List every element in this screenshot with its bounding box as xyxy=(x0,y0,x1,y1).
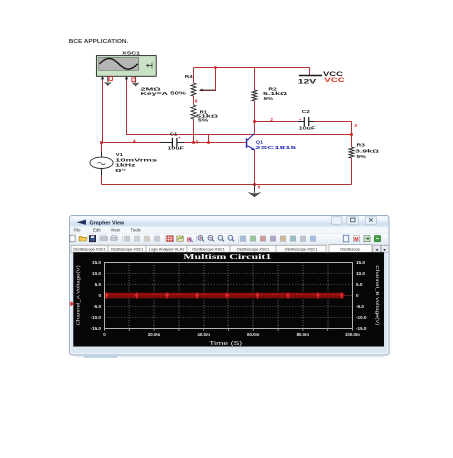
waveform trace xyxy=(105,293,344,299)
svg-text:3: 3 xyxy=(354,123,357,129)
svg-text:►: ► xyxy=(383,247,387,252)
power VCC xyxy=(298,71,346,86)
svg-text:Channel_A Voltage(V): Channel_A Voltage(V) xyxy=(76,265,82,326)
svg-text:0°: 0° xyxy=(115,168,126,173)
plot frame xyxy=(105,263,353,329)
junction node 4/V1 xyxy=(100,141,103,144)
svg-text:Oscilloscope-XSC1: Oscilloscope-XSC1 xyxy=(237,247,270,251)
window title bar xyxy=(71,217,389,228)
wire R3 bottom xyxy=(351,158,353,185)
wire C2 to node 3 xyxy=(309,121,352,123)
x axis ticks xyxy=(105,329,353,331)
svg-text:6: 6 xyxy=(195,98,198,104)
svg-text:10.0: 10.0 xyxy=(92,271,101,276)
junction node 5 xyxy=(192,141,195,144)
wire scope A probe xyxy=(102,80,104,143)
svg-text:10.0: 10.0 xyxy=(356,271,365,276)
wire wiper to rail xyxy=(200,68,216,91)
transistor Q1 xyxy=(246,133,297,150)
svg-text:Time (S): Time (S) xyxy=(209,341,242,347)
svg-text:15.0: 15.0 xyxy=(356,260,365,265)
svg-text:10uF: 10uF xyxy=(168,145,185,150)
waveform tail dots xyxy=(344,294,352,296)
svg-text:Oscilloscop: Oscilloscop xyxy=(340,247,359,251)
window menu bar xyxy=(71,227,388,234)
svg-text:5.0: 5.0 xyxy=(356,282,363,287)
wire scope B tap to node 5 xyxy=(208,135,210,143)
window tab bar xyxy=(71,244,389,252)
svg-text:3.9kΩ: 3.9kΩ xyxy=(355,149,379,154)
svg-text:100.0m: 100.0m xyxy=(345,332,360,337)
junction node 3 tee xyxy=(350,133,353,136)
svg-text:-5.0: -5.0 xyxy=(356,304,364,309)
svg-text:VCC: VCC xyxy=(324,77,345,84)
wire scope B probe to output xyxy=(127,80,352,135)
source V1 xyxy=(90,152,158,175)
scope channel B tag xyxy=(132,78,135,82)
svg-text:Oscilloscope-XSC1: Oscilloscope-XSC1 xyxy=(73,247,106,251)
svg-text:Oscilloscope-XSC1: Oscilloscope-XSC1 xyxy=(192,247,225,251)
svg-text:40.0m: 40.0m xyxy=(197,332,210,337)
svg-text:◄: ◄ xyxy=(375,247,379,252)
svg-text:R4: R4 xyxy=(185,74,194,79)
window toolbar xyxy=(70,234,388,245)
svg-text:80.0m: 80.0m xyxy=(297,332,310,337)
svg-text:-10.0: -10.0 xyxy=(356,315,367,320)
svg-text:Logic Analyser-XLA1: Logic Analyser-XLA1 xyxy=(149,247,184,251)
wire node 2 to C2 xyxy=(255,121,305,123)
svg-text:Oscilloscope-XSC1: Oscilloscope-XSC1 xyxy=(111,247,144,251)
wire top rail VCC xyxy=(194,67,310,69)
y axis labels left xyxy=(91,260,102,331)
svg-text:12V: 12V xyxy=(298,78,318,85)
svg-text:Oscilloscope-XSC1: Oscilloscope-XSC1 xyxy=(285,247,318,251)
grid vertical xyxy=(129,263,328,329)
waveform markers xyxy=(105,292,344,299)
grid horizontal xyxy=(105,274,353,318)
svg-text:-10.0: -10.0 xyxy=(91,315,102,320)
svg-text:5%: 5% xyxy=(198,118,210,123)
chart background xyxy=(73,252,384,346)
svg-text:Tools: Tools xyxy=(131,228,142,233)
svg-text:M: M xyxy=(354,237,359,243)
svg-text:5: 5 xyxy=(196,140,199,146)
wire V1 top stub xyxy=(101,143,103,158)
junction node 2 xyxy=(253,120,256,123)
resistor R3 xyxy=(349,142,379,159)
wire VCC stub xyxy=(309,68,311,76)
y axis labels right xyxy=(356,260,367,331)
wire R4-R1 node 6 xyxy=(193,96,195,105)
svg-text:-5.0: -5.0 xyxy=(93,304,101,309)
oscilloscope XSC1 xyxy=(96,51,156,81)
capacitor C1 xyxy=(160,131,185,150)
svg-text:50%: 50% xyxy=(170,90,187,95)
svg-text:Q1: Q1 xyxy=(256,139,264,144)
capacitor C2 xyxy=(299,109,316,130)
svg-text:20.0m: 20.0m xyxy=(148,332,161,337)
toolbar icons xyxy=(70,235,75,242)
wire right rail to R3 xyxy=(351,122,353,148)
ground scope B- xyxy=(132,76,139,86)
wire emitter down xyxy=(254,150,256,185)
svg-text:View: View xyxy=(111,228,121,233)
svg-text:C2: C2 xyxy=(302,109,311,114)
svg-text:15.0: 15.0 xyxy=(92,260,101,265)
wire V1 bottom stub xyxy=(101,168,103,184)
svg-text:0: 0 xyxy=(356,293,359,298)
svg-text:10uF: 10uF xyxy=(299,125,316,130)
resistor R1 xyxy=(191,105,218,123)
svg-text:0: 0 xyxy=(98,293,101,298)
svg-text:BCE APPLICATION.: BCE APPLICATION. xyxy=(69,39,129,45)
svg-text:5.0: 5.0 xyxy=(95,282,102,287)
svg-text:2SC1815: 2SC1815 xyxy=(255,145,297,150)
svg-text:Key=A: Key=A xyxy=(141,91,170,96)
svg-text:Multism Circuit1: Multism Circuit1 xyxy=(183,252,271,261)
ground scope A- xyxy=(104,76,111,85)
junction scope B tap xyxy=(207,141,210,144)
scope channel A tag xyxy=(109,77,112,81)
wire R2 bottom to node 2 xyxy=(254,101,256,133)
svg-text:2: 2 xyxy=(270,117,273,123)
window shadow xyxy=(76,355,384,357)
junction ground tee xyxy=(253,183,256,186)
wire collector R2 top xyxy=(254,68,256,91)
svg-text:-15.0: -15.0 xyxy=(91,326,102,331)
resistor R2 xyxy=(252,86,287,101)
svg-text:5%: 5% xyxy=(264,96,275,101)
wire bottom rail xyxy=(102,184,352,186)
svg-text:Grapher View: Grapher View xyxy=(90,220,125,226)
wire R4 top xyxy=(193,68,195,84)
svg-text:XSC1: XSC1 xyxy=(122,51,141,56)
svg-text:60.0m: 60.0m xyxy=(247,332,260,337)
junction wiper rail xyxy=(214,66,216,68)
trace selector arrow xyxy=(70,301,74,306)
svg-text:Channel_B Voltage(V): Channel_B Voltage(V) xyxy=(374,265,380,326)
svg-text:R3: R3 xyxy=(357,142,366,147)
wire R1 bottom to node 5 xyxy=(193,119,195,143)
svg-text:File: File xyxy=(74,228,82,233)
ground xyxy=(248,185,260,198)
svg-text:Edit: Edit xyxy=(93,228,101,233)
svg-text:4: 4 xyxy=(133,139,136,145)
svg-text:5%: 5% xyxy=(357,154,368,159)
potentiometer R4 xyxy=(140,74,215,96)
wire base node 4-5 xyxy=(102,142,173,144)
svg-text:-15.0: -15.0 xyxy=(356,326,367,331)
svg-text:C1: C1 xyxy=(170,131,178,136)
svg-text:0: 0 xyxy=(258,185,261,191)
x axis labels xyxy=(103,332,360,337)
